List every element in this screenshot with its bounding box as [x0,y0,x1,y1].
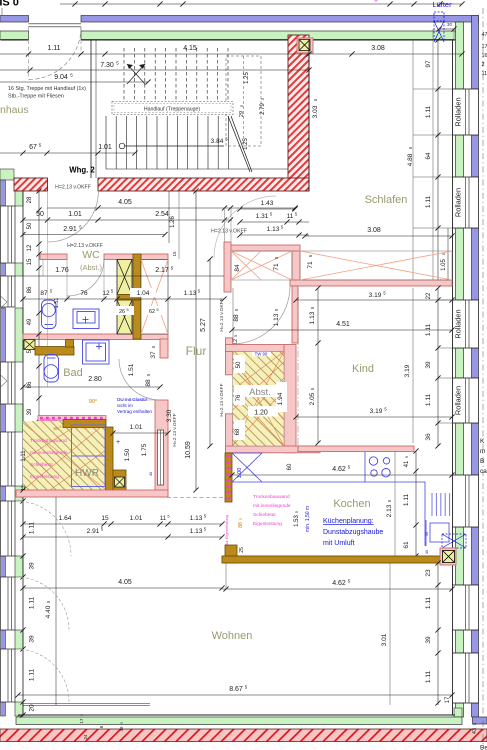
Abst label [242,385,279,397]
svg-text:39: 39 [29,562,36,570]
SE pink box with column [440,548,456,565]
svg-text:30: 30 [447,22,453,27]
Wohnen dims [23,587,222,589]
french door arcs left wall [16,501,71,556]
Trockenbauwand dotted strip [38,416,106,422]
right exterior wall purple band [472,16,479,90]
svg-text:Stb.-Treppe mit Fliesen: Stb.-Treppe mit Fliesen [8,94,64,100]
svg-text:4.62: 4.62 [332,466,346,473]
svg-text:4.51: 4.51 [336,321,350,328]
svg-text:+: + [116,439,120,446]
svg-text:16 Stg. Treppe mit Handlauf (1: 16 Stg. Treppe mit Handlauf (1x) [8,86,86,92]
svg-text:Eigenleistung: Eigenleistung [253,521,282,527]
hall dim line 1.01/2.54 [23,219,232,221]
svg-text:nhaus: nhaus [0,104,29,116]
svg-text:67: 67 [29,144,37,151]
Schlafen window extension lines [413,88,452,90]
svg-text:1.94: 1.94 [277,392,284,405]
svg-text:61: 61 [403,541,410,549]
svg-text:71: 71 [307,261,314,269]
svg-text:1.00: 1.00 [237,468,243,479]
stair walk line [119,143,125,149]
svg-text:3.19: 3.19 [404,364,411,377]
svg-text:68: 68 [235,428,241,435]
kitchen counter line [232,452,425,546]
svg-text:Kind: Kind [352,363,374,375]
right edge cut dimension numbers [482,8,484,748]
washing machine [72,425,106,487]
svg-text:2.91: 2.91 [87,528,100,535]
kitchen sink [426,520,449,546]
appliance X (fridge) [232,453,262,482]
HWR brown walls [63,420,106,428]
svg-text:4.62: 4.62 [332,580,346,587]
svg-text:88: 88 [145,379,152,387]
svg-text:mit innenliegende: mit innenliegende [30,450,68,456]
shaft yellow boxes [117,260,132,295]
svg-text:1.51: 1.51 [54,298,60,309]
svg-text:SIS 0: SIS 0 [0,0,19,9]
svg-text:TW 90: TW 90 [255,352,268,357]
svg-text:5: 5 [60,425,62,429]
svg-text:1.11: 1.11 [29,522,36,535]
center dash-dot line Abst/Kind [297,288,299,452]
wall corner extension lines [224,208,226,242]
top entry door arc [29,27,82,80]
right exterior wall green insulation [456,22,464,89]
svg-text:43: 43 [472,728,478,734]
svg-text:39: 39 [425,361,432,369]
Kind window extension lines [438,299,452,301]
svg-text:8.67: 8.67 [229,686,243,693]
svg-text:Schlafen: Schlafen [365,194,408,206]
fan symbol right wall kitchen [442,534,466,548]
svg-text:1.51: 1.51 [128,363,135,376]
svg-text:K: K [480,438,485,445]
svg-text:1.50: 1.50 [124,448,131,461]
Bad washbasin [83,340,110,364]
svg-text:5: 5 [156,308,158,312]
svg-text:5: 5 [126,308,128,312]
svg-text:5: 5 [240,105,244,107]
svg-text:49: 49 [119,726,124,732]
right wall windows with Rolladen [453,89,479,135]
svg-text:Bad: Bad [63,367,83,379]
Trockenbau vertical strip (Kochen west) [225,453,232,502]
top exterior wall green insulation [0,31,29,40]
Kind door arc [232,286,290,344]
dim line 9.04 [0,81,148,83]
svg-text:11: 11 [160,516,167,522]
svg-text:1.11: 1.11 [29,597,36,610]
svg-text:H=2.13 v.OKFF: H=2.13 v.OKFF [67,243,103,249]
radiator [432,493,450,516]
svg-text:90°: 90° [89,399,97,405]
svg-text:1.01: 1.01 [98,144,112,151]
svg-text:50: 50 [236,361,242,368]
svg-text:1.13: 1.13 [267,226,280,233]
svg-text:5: 5 [80,714,84,716]
svg-text:5.27: 5.27 [200,318,207,332]
Kind dims [296,299,452,301]
svg-text:28: 28 [27,196,33,203]
svg-text:1.26: 1.26 [170,216,176,228]
svg-text:1.11: 1.11 [425,106,432,119]
right chain (middle) [437,288,439,446]
svg-text:Dunstabzugshaube: Dunstabzugshaube [323,529,383,536]
WC bottom wall [23,334,168,340]
stair treads lower flight (solid) [105,116,107,169]
svg-text:1.25: 1.25 [244,72,250,84]
svg-text:4.88: 4.88 [407,153,414,166]
svg-text:Whg. 2: Whg. 2 [69,166,95,175]
svg-text:2.17: 2.17 [155,267,169,274]
svg-text:1.11: 1.11 [47,45,60,52]
svg-text:16: 16 [482,53,487,59]
svg-text:87: 87 [40,290,48,297]
svg-text:mit innenliegende: mit innenliegende [253,503,291,509]
svg-text:2: 2 [482,62,485,68]
svg-text:H=2.13 v.OKFF: H=2.13 v.OKFF [211,229,247,235]
svg-text:24: 24 [83,734,88,740]
svg-text:17: 17 [79,718,84,724]
svg-text:10.59: 10.59 [185,441,192,459]
svg-text:30: 30 [425,550,429,554]
svg-text:7.30: 7.30 [100,62,114,69]
svg-text:B: B [480,458,484,465]
sliding door pocket in wall [158,430,164,485]
top entry door lintel [29,23,82,25]
svg-text:1.11: 1.11 [29,669,36,682]
svg-text:3.03: 3.03 [312,105,319,118]
svg-text:1.43: 1.43 [261,200,274,207]
Schlafen 3.08 dim [305,235,452,237]
svg-text:15: 15 [101,515,109,522]
svg-text:22: 22 [426,292,432,299]
svg-text:76: 76 [80,290,88,297]
Kochen south brown wall [222,556,440,563]
svg-text:39: 39 [29,635,36,643]
hall dim line 4.05 [47,207,295,209]
svg-text:Lüfter: Lüfter [432,0,452,9]
svg-text:4.15: 4.15 [183,45,197,52]
svg-text:1.53: 1.53 [294,515,300,527]
orange X strip left [231,251,292,280]
svg-text:15: 15 [172,251,177,257]
svg-text:36: 36 [425,433,432,441]
extension line from hall door [47,242,49,387]
red hatched wall Whg.2 left segment [14,178,48,191]
Kochen top wall [298,446,414,452]
svg-text:84: 84 [234,264,241,272]
svg-text:37: 37 [150,351,157,359]
left wall inner face [22,191,24,715]
svg-text:2.05: 2.05 [309,392,316,405]
svg-text:3.30: 3.30 [166,409,173,422]
svg-text:3.08: 3.08 [371,45,385,52]
svg-text:88: 88 [238,522,244,528]
svg-text:60: 60 [287,463,293,470]
svg-text:5: 5 [234,335,238,337]
Bad brown wall piece + shaft box [24,340,35,350]
svg-text:1.13: 1.13 [309,311,316,324]
svg-text:1.20: 1.20 [254,410,268,417]
svg-text:1.11: 1.11 [425,324,432,337]
svg-text:Vertrag enthalten: Vertrag enthalten [117,409,152,414]
svg-text:2.80: 2.80 [88,376,102,383]
dim line 67/1.01 [0,152,135,154]
svg-text:1.11: 1.11 [425,597,432,610]
right inner chain kitchen [415,451,417,556]
Abst interior hatch [233,352,285,447]
svg-text:Handlauf (Treppenauge): Handlauf (Treppenauge) [144,107,201,113]
Bad door arc [119,359,160,400]
svg-text:(Abst.): (Abst.) [80,263,103,272]
svg-text:3.84: 3.84 [211,138,224,145]
Abst dims [276,382,287,412]
svg-text:2.13: 2.13 [386,504,393,517]
hall door arc near Schlafen [214,196,276,258]
svg-text:5: 5 [239,518,243,520]
svg-text:86: 86 [27,286,33,293]
red hatched wall vertical (stair / Schlafen) [288,35,309,191]
svg-text:1.64: 1.64 [59,515,72,522]
Bad toilet [44,355,59,383]
HWR south wall [16,490,168,497]
svg-text:9.04: 9.04 [54,74,68,81]
entry door arc Whg.2 [48,191,99,242]
svg-text:39: 39 [27,408,33,415]
WC door arc [67,259,104,296]
svg-text:1.05: 1.05 [441,259,447,271]
svg-text:Trockenbauwand: Trockenbauwand [30,438,67,444]
svg-text:1.11: 1.11 [21,450,27,462]
svg-text:Schiebetür: Schiebetür [253,512,276,518]
WC sink [73,309,99,329]
hall dim line 2.91 [23,234,165,236]
svg-text:1.11: 1.11 [425,196,432,209]
svg-text:47: 47 [482,32,487,38]
bottom exterior wall [18,714,455,716]
svg-text:Rolladen: Rolladen [454,386,463,415]
svg-text:1.01: 1.01 [68,211,82,218]
svg-text:Kochen: Kochen [333,498,370,510]
svg-text:88: 88 [53,426,59,432]
stair treads upper flight (dashed) [123,48,125,107]
Schlafen interior extension lines [412,40,414,282]
svg-text:Eigenleistung: Eigenleistung [30,474,59,480]
svg-text:20: 20 [29,704,36,712]
WC top wall [40,254,67,260]
svg-text:5: 5 [120,722,124,724]
shaft brown strip [133,254,141,339]
svg-text:1.11: 1.11 [425,671,432,684]
Kind west wall [292,286,298,343]
stair up arrow cross [127,64,145,84]
right wall inner face [452,40,454,715]
svg-text:30: 30 [425,532,429,536]
svg-text:2.54: 2.54 [155,211,169,218]
svg-text:15: 15 [27,258,33,265]
svg-text:50: 50 [27,222,33,229]
svg-text:+: + [374,0,378,5]
orange X strip right [300,251,452,280]
cut dimension line at top edge [60,3,462,5]
svg-text:75: 75 [81,425,87,431]
dim line y54 [0,53,462,55]
svg-text:3.19: 3.19 [369,292,382,299]
svg-text:nicht im: nicht im [117,403,133,408]
svg-text:tür Eigenleistung: tür Eigenleistung [224,515,229,545]
svg-text:H=2.13 v.OKFF: H=2.13 v.OKFF [219,383,225,416]
svg-text:97: 97 [425,60,432,68]
stair stringer diagonals [228,116,250,172]
svg-text:12: 12 [102,290,110,297]
svg-text:Be: Be [480,745,487,750]
svg-text:Küchenplanung:: Küchenplanung: [323,518,374,525]
Schlafen south wall east part [290,280,452,286]
svg-text:DU mit Glastür: DU mit Glastür [117,397,148,402]
svg-text:41: 41 [404,460,410,467]
svg-text:62: 62 [149,309,155,315]
svg-text:2.79: 2.79 [260,103,266,115]
svg-text:3.19: 3.19 [370,408,383,415]
svg-text:49: 49 [27,318,33,325]
svg-text:29: 29 [239,111,245,117]
svg-text:40: 40 [148,471,153,476]
svg-text:1.11: 1.11 [425,394,432,407]
svg-text:H=2.13 v.OKFF: H=2.13 v.OKFF [55,185,91,191]
svg-text:1.01: 1.01 [130,424,143,431]
right inner dim chain (top) [437,40,439,282]
svg-text:1.31: 1.31 [256,213,269,220]
svg-text:23: 23 [425,569,432,577]
orange X box right of shaft [141,260,168,335]
svg-text:26: 26 [119,309,125,315]
svg-text:4.05: 4.05 [118,579,132,586]
svg-text:3.01: 3.01 [381,633,388,646]
bottom red hatched band (neighbouring wall) [0,729,487,742]
svg-text:m: m [480,448,485,455]
stairwell eye dashed frame [226,56,261,146]
window opening V marks [1,296,8,308]
step connector [292,251,300,286]
svg-text:12: 12 [27,244,33,251]
svg-text:Schiebetür: Schiebetür [30,462,53,468]
Kochen dims [232,474,452,476]
dashed line below corridor [167,497,226,499]
svg-text:1.13: 1.13 [190,515,203,522]
cooktop [369,457,390,477]
WC toilet [42,300,57,329]
svg-text:H=2.13 v.OKFF: H=2.13 v.OKFF [172,413,178,446]
svg-text:1.13: 1.13 [184,290,197,297]
red hatched wall Whg.2 main segment [98,178,309,191]
kitchen extension line [394,451,396,556]
top exterior wall purple band [0,16,29,23]
svg-text:5: 5 [88,424,90,428]
svg-text:Abst.: Abst. [249,387,271,398]
svg-text:1.25: 1.25 [243,138,249,150]
svg-text:WC: WC [82,249,100,261]
svg-text:76: 76 [236,394,242,401]
svg-text:1.01: 1.01 [130,515,143,522]
svg-text:min. 1,50 m: min. 1,50 m [305,506,311,532]
svg-text:5: 5 [473,723,477,725]
svg-text:Wohnen: Wohnen [212,630,253,642]
svg-text:11: 11 [482,71,487,77]
svg-text:64: 64 [425,152,432,160]
svg-text:11: 11 [287,213,294,220]
staircase boundary lines [90,40,92,178]
Schlafen south wall west part [224,245,300,251]
left wall windows [1,206,16,263]
svg-text:39: 39 [425,636,432,644]
svg-text:1.04: 1.04 [137,290,150,297]
svg-text:1.13: 1.13 [190,528,203,535]
svg-text:Trockenbauwand: Trockenbauwand [253,494,290,500]
dim line 7.30 [0,69,309,71]
svg-text:1.11: 1.11 [403,494,410,507]
svg-text:ca: ca [480,468,487,475]
svg-text:17: 17 [445,696,451,703]
svg-text:mit Umluft: mit Umluft [323,540,355,547]
svg-text:H=2.13 v.OKFF: H=2.13 v.OKFF [219,298,225,331]
svg-text:1.75: 1.75 [141,443,148,456]
svg-text:4.05: 4.05 [118,199,132,206]
svg-text:3.08: 3.08 [367,227,381,234]
svg-text:HWR: HWR [75,468,99,479]
handlauf label box [112,102,233,115]
svg-text:17: 17 [482,44,487,50]
svg-text:4.40: 4.40 [45,605,52,618]
corridor west wall [160,339,168,358]
svg-text:25: 25 [239,547,245,553]
svg-text:88: 88 [233,314,240,322]
svg-text:Rolladen: Rolladen [454,188,463,217]
corner insulation piece at Whg2 wall [0,169,14,180]
top wall inner face [1,39,29,41]
svg-text:12: 12 [21,485,27,491]
svg-text:2.91: 2.91 [63,226,77,233]
Abst room walls [226,338,233,375]
svg-text:Rolladen: Rolladen [454,309,463,338]
column box top [297,38,313,53]
svg-text:Rolladen: Rolladen [454,97,463,126]
HWR yellow hatch area [23,421,106,490]
chain line left rooms [38,191,40,490]
svg-text:71: 71 [273,263,280,271]
